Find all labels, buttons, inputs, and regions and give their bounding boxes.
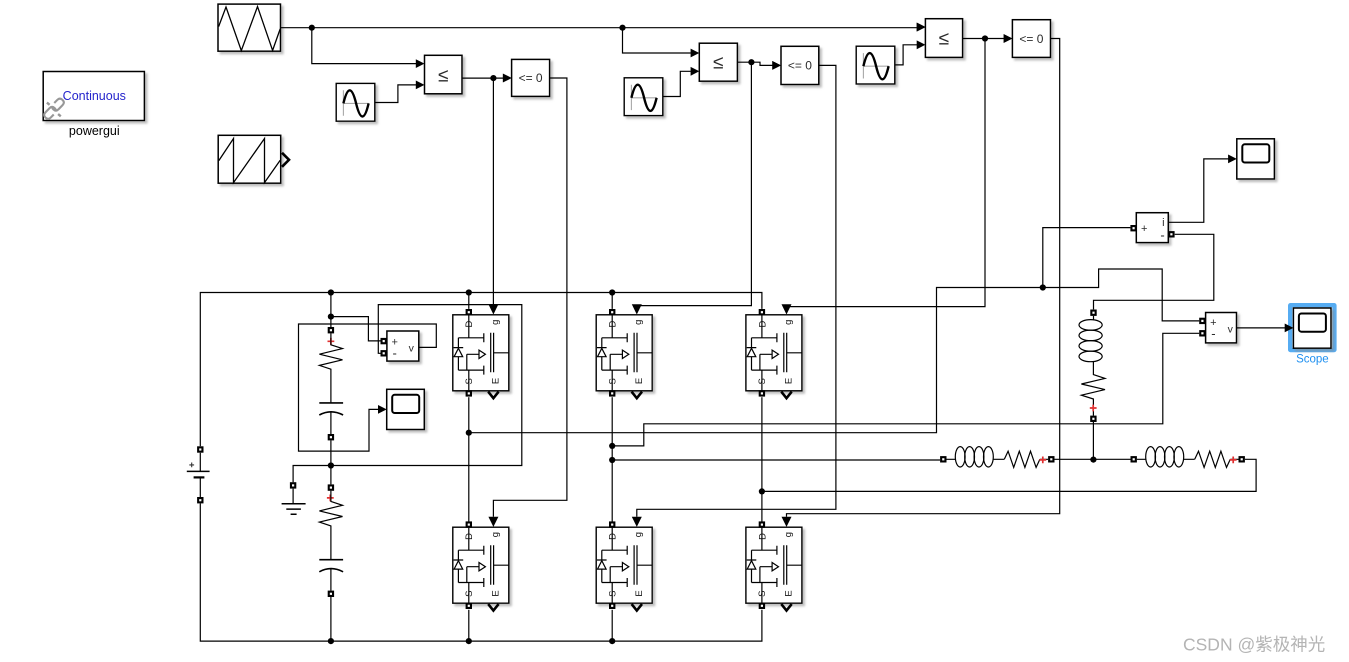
relational operator block 1 [416, 55, 462, 94]
wire: top bus to IGBT 2 drain [611, 293, 613, 309]
svg-text:Continuous: Continuous [63, 89, 126, 103]
wire: top bus to IGBT 1 drain [468, 293, 470, 309]
wire: current measurement output to scope 1 [1169, 159, 1229, 222]
svg-text:<= 0: <= 0 [1019, 32, 1043, 46]
node RC divider mid tap [328, 314, 334, 320]
wire: IGBT 5 emitter to bottom bus [611, 610, 613, 641]
voltage measurement block V2 [1199, 313, 1236, 343]
node phase leg 3 midpoint [759, 488, 765, 494]
series RLC branch R2C2 (lower left) [319, 484, 343, 597]
svg-text:<= 0: <= 0 [519, 71, 543, 85]
wire: V2 output to scope 3 [1237, 327, 1286, 329]
wire: relational 2 output to compare 2 [737, 62, 772, 65]
wire: relational 3 to IGBT 3 gate [787, 39, 986, 307]
compare to zero block 2 [772, 46, 819, 84]
wire: compare 1 to IGBT 4 gate [493, 78, 567, 517]
wire: tap to current measurement plus [1043, 228, 1131, 288]
triangle wave source block [218, 4, 281, 51]
svg-text:≤: ≤ [939, 29, 949, 50]
relational operator block 2 [691, 43, 738, 81]
svg-text:v: v [1228, 323, 1234, 335]
node phase leg 2 midpoint a [609, 443, 615, 449]
wire: top bus to RC branch 1 [330, 293, 332, 328]
voltage measurement block V1 [381, 331, 419, 361]
IGBT/Diode block 5 [596, 517, 652, 611]
relational operator block 3 [917, 19, 963, 58]
wire: leg 2 midpoint to V2 minus [612, 333, 1199, 446]
wire: relational 3 output to compare 3 [963, 38, 1004, 40]
svg-text:≤: ≤ [713, 53, 723, 74]
svg-text:CSDN @紫极神光: CSDN @紫极神光 [1183, 635, 1325, 655]
node measurement tap [1040, 284, 1046, 290]
node on relational 3 output [982, 35, 988, 41]
svg-text:-: - [1211, 326, 1215, 341]
wire: current measurement minus to RL vertical top [1094, 234, 1214, 309]
IGBT/Diode block 2 [596, 304, 652, 398]
wire: RC2 bottom to bottom bus [330, 597, 332, 641]
compare to zero block 1 [503, 59, 550, 96]
wire: IGBT 4 emitter to bottom bus [468, 610, 470, 641]
DC voltage source E [187, 446, 210, 503]
wire: relational 1 to IGBT 1 gate [492, 78, 494, 305]
wire: leg 2 midpoint to RL branch 1 [612, 459, 940, 461]
sine wave block 2 [624, 78, 663, 116]
wire: bus branch to relational 1 input [312, 28, 416, 64]
wire: relational 1 output to compare 1 [462, 77, 503, 79]
wire: sine 1 to relational 1 [375, 85, 416, 103]
node top bus at RC branch [328, 289, 334, 295]
current measurement block I [1130, 213, 1174, 243]
sine wave block 1 [336, 83, 375, 121]
wire: RC tap to V1 plus input [331, 317, 381, 341]
wire: DC positive rail to top bus [200, 293, 762, 447]
wire: RC1 bottom to mid node and RC2 [330, 440, 332, 484]
node RL junction [1090, 457, 1096, 463]
wire: phase leg 1 (IGBT1 to IGBT4) [468, 397, 470, 521]
svg-text:<= 0: <= 0 [788, 59, 812, 73]
svg-text:Scope: Scope [1296, 353, 1329, 365]
wire: DC negative rail along bottom bus [200, 503, 762, 641]
compare to zero block 3 [1004, 20, 1051, 58]
IGBT/Diode block 1 [453, 304, 509, 398]
sine wave block 3 [856, 46, 895, 84]
series RLC branch RL horizontal 1 [940, 447, 1054, 468]
sawtooth wave source block [218, 135, 289, 183]
svg-text:+: + [1141, 223, 1147, 235]
wire: leg 1 midpoint to measurement node [469, 269, 1199, 433]
node on relational 2 output [748, 59, 754, 65]
wire: RL vertical bottom to junction [1092, 422, 1094, 460]
series RLC branch RL vertical (right load) [1079, 310, 1105, 422]
wire: compare 2 to IGBT 5 gate [637, 65, 836, 516]
scope block 3 (selected, blue highlight) [1285, 303, 1337, 365]
wire: RL1 to RL2 junction [1055, 458, 1131, 460]
wire: bus branch to relational 2 input [623, 28, 691, 53]
ground [282, 482, 306, 514]
svg-text:≤: ≤ [438, 65, 448, 86]
node top bus at IGBT 1 [466, 289, 472, 295]
svg-text:-: - [1160, 227, 1164, 242]
wire: triangle source to relational operators bus [281, 27, 917, 29]
series RLC branch RL horizontal 2 [1131, 447, 1245, 468]
powergui block [43, 72, 145, 138]
node bottom bus at RC2 [328, 638, 334, 644]
scope block 1 (top right) [1228, 139, 1274, 179]
node phase leg 1 midpoint [466, 430, 472, 436]
wire: relational 2 to IGBT 2 gate [637, 62, 752, 305]
wire: phase leg 3 (IGBT3 to IGBT6) [761, 397, 763, 521]
node bottom bus at IGBT 4 [466, 638, 472, 644]
wire: phase leg 2 (IGBT2 to IGBT5) [611, 397, 613, 521]
wire: compare 3 to IGBT 6 gate [787, 39, 1060, 517]
wire: sine 2 to relational 2 [663, 71, 691, 96]
svg-text:powergui: powergui [69, 124, 120, 138]
wire: V1 output to scope 2 [299, 324, 437, 451]
svg-text:-: - [393, 345, 397, 360]
wire: leg 3 midpoint to RL branch 2 return [762, 459, 1256, 491]
IGBT/Diode block 3 [746, 304, 802, 398]
svg-text:v: v [409, 342, 415, 354]
node on triangle bus 1 [309, 25, 315, 31]
node top bus at IGBT 2 [609, 289, 615, 295]
wire: ground to RC mid node [293, 466, 331, 483]
scope block 2 (left) [378, 389, 424, 429]
series RLC branch R1C1 (upper left) [319, 327, 343, 440]
node on triangle bus 2 [619, 25, 625, 31]
wire: V1 minus input to RC mid node [331, 305, 522, 466]
wire: sine 3 to relational 3 [895, 45, 917, 65]
node RC mid / ground node [328, 462, 334, 468]
node on relational 1 output [490, 75, 496, 81]
IGBT/Diode block 6 [746, 517, 802, 611]
node bottom bus at IGBT 5 [609, 638, 615, 644]
node phase leg 2 midpoint b [609, 457, 615, 463]
IGBT/Diode block 4 [453, 517, 509, 611]
